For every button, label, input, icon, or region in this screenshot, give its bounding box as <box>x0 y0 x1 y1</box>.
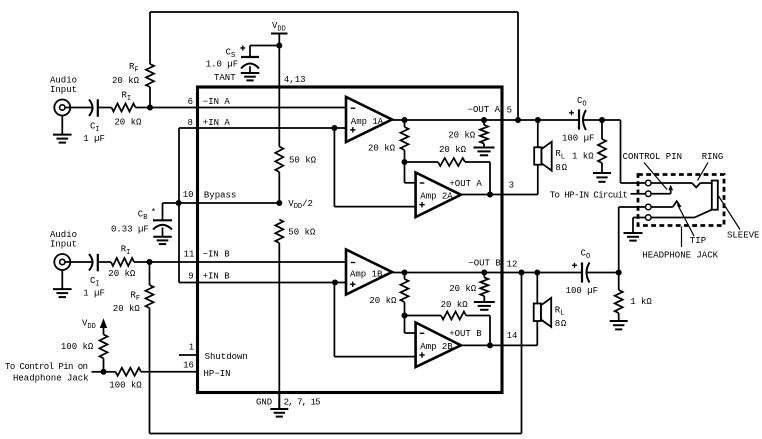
wire RI-B to node <box>134 261 150 263</box>
svg-text:20 kΩ: 20 kΩ <box>114 118 142 128</box>
callout line (headphone jack) <box>681 227 683 248</box>
svg-text:20 kΩ: 20 kΩ <box>449 284 477 294</box>
wire pin 3 to speaker A <box>502 194 538 196</box>
value 20 kOhm (RI A) <box>114 118 142 128</box>
wire tip contact <box>651 201 680 207</box>
wire CO-A to control pin <box>621 120 646 183</box>
svg-text:100 µF: 100 µF <box>562 133 594 143</box>
capacitor CI (A) 1 uF <box>89 99 98 117</box>
label VDD (pull-up) <box>82 319 96 331</box>
wire input B to CI <box>65 261 93 263</box>
node speaker-A junction <box>535 117 541 123</box>
label RING <box>702 152 724 162</box>
wire divider mid <box>278 172 280 203</box>
value 20 kOhm (B cross) <box>441 300 469 310</box>
svg-text:20 kΩ: 20 kΩ <box>448 131 476 141</box>
plus mark (CO A) <box>569 110 574 115</box>
wire +IN B from bypass riser <box>179 282 346 284</box>
wire -OUT A to CO <box>502 119 579 121</box>
minus mark (Amp 1B) <box>351 262 356 264</box>
node -OUT B / 20k junction <box>481 270 487 276</box>
wire input A to CI <box>65 107 93 109</box>
wire Amp1B output to -OUT B <box>392 272 502 274</box>
svg-text:12: 12 <box>507 259 518 269</box>
resistor 100 kOhm (pull-up) <box>100 335 108 372</box>
capacitor CO (B) 100 uF <box>582 262 590 282</box>
value 100 kOhm (pull-up) <box>61 342 94 352</box>
label RF (A) <box>129 62 139 74</box>
value 1 kOhm (B) <box>630 297 652 307</box>
svg-text:100 kΩ: 100 kΩ <box>61 342 94 352</box>
wire pin 14 to speaker B <box>502 344 537 346</box>
wire CS to ground <box>249 66 251 73</box>
plus mark (CO B) <box>572 263 577 268</box>
capacitor CI (B) 1 uF <box>89 254 98 271</box>
label CI (A) <box>90 122 100 134</box>
svg-text:RING: RING <box>702 152 724 162</box>
ground (1k A) <box>593 173 611 182</box>
wire CI-A to RI-A <box>98 107 112 109</box>
pin 12 <box>507 259 518 269</box>
headphone jack dashed box <box>638 175 724 226</box>
label Bypass <box>204 190 236 200</box>
value 1 uF (CI B) <box>83 289 105 299</box>
wire Amp1A output to -OUT A <box>392 119 502 121</box>
pin 10 <box>183 190 194 200</box>
ground (input A) <box>53 135 72 143</box>
capacitor CB 0.33 uF <box>153 203 172 230</box>
svg-text:Input: Input <box>50 239 77 249</box>
node CO-B output junction <box>616 270 622 276</box>
plus mark (Amp 1B) <box>350 282 355 287</box>
node speaker-B junction <box>534 270 540 276</box>
wire Amp2A minus stub <box>405 162 416 183</box>
node -IN B junction <box>147 259 153 265</box>
value 20 kOhm (A fb upper) <box>368 144 396 154</box>
pin 5 <box>507 105 512 115</box>
wire jack ground branch <box>633 218 645 234</box>
wire Amp2B plus input <box>334 283 415 357</box>
op-amp Amp 2A <box>416 173 461 218</box>
pin 8 <box>187 118 192 128</box>
svg-text:HP−IN: HP−IN <box>204 369 231 379</box>
wire control contact with arrow <box>651 185 673 194</box>
svg-text:50 kΩ: 50 kΩ <box>289 156 317 166</box>
svg-text:+OUT B: +OUT B <box>449 329 482 339</box>
svg-text:1 µF: 1 µF <box>83 289 105 299</box>
node -OUT A / 20k junction <box>481 117 487 123</box>
wire RF-A top segment <box>149 12 151 64</box>
label +OUT B <box>449 329 482 339</box>
svg-text:1 kΩ: 1 kΩ <box>630 297 652 307</box>
value 20 kOhm (A gnd) <box>448 131 476 141</box>
resistor 50 kOhm (lower divider) <box>275 220 283 244</box>
node VDD/2 <box>276 200 282 206</box>
pin 3 <box>509 180 514 190</box>
wire +OUT B to pin 14 <box>461 344 502 346</box>
label CO (B) <box>581 249 591 261</box>
label GND <box>256 398 272 408</box>
svg-text:SLEEVE: SLEEVE <box>727 231 759 241</box>
jack contact circle 1 (ring) <box>646 180 652 186</box>
label VDD (top) <box>272 21 286 33</box>
resistor RF (B) 20 kOhm <box>146 285 154 308</box>
label CS <box>226 48 236 60</box>
ground (1k B) <box>610 321 628 329</box>
label Amp 1A <box>351 117 384 127</box>
svg-text:6: 6 <box>188 97 193 107</box>
connector Audio Input B <box>54 254 70 270</box>
ground (jack) <box>624 233 643 241</box>
node bypass junction <box>176 200 182 206</box>
wire ring contact <box>651 183 711 188</box>
svg-text:2, 7, 15: 2, 7, 15 <box>284 398 321 408</box>
ground (A 20k) <box>474 148 495 156</box>
wire control label to node <box>92 371 104 373</box>
label RF (B) <box>131 291 141 303</box>
label HEADPHONE JACK <box>642 250 718 260</box>
node VDD junction <box>276 43 282 49</box>
wire CO-A to node <box>583 119 620 121</box>
wire RF-A feedback loop (top) <box>150 12 518 120</box>
wire B cross-couple down <box>489 316 491 346</box>
value 50 kOhm (lower) <box>288 228 316 238</box>
resistor 20 kOhm (B to ground) <box>480 273 488 303</box>
label -IN A <box>203 97 231 107</box>
resistor 1 kOhm (A) <box>598 120 606 173</box>
svg-text:Amp 2A: Amp 2A <box>420 192 453 202</box>
op-amp Amp 1B <box>346 250 392 295</box>
svg-text:8Ω: 8Ω <box>555 163 567 173</box>
svg-text:9: 9 <box>188 272 193 282</box>
wire Amp2A plus input <box>334 128 415 207</box>
resistor 100 kOhm (HP-IN series) <box>104 368 198 376</box>
label Shutdown <box>205 352 248 362</box>
wire divider to GND pins <box>278 243 280 393</box>
plus mark (Amp 2B) <box>419 352 424 357</box>
label VDD/2 <box>288 199 313 211</box>
resistor RI (A) 20 kOhm <box>112 104 136 112</box>
node HP-IN junction <box>101 369 107 375</box>
wire RF-A bottom segment <box>149 87 151 108</box>
resistor 50 kOhm (upper divider) <box>275 147 283 173</box>
wire RF-B feedback loop (bottom) <box>150 273 522 434</box>
value 20 kOhm (RI B) <box>108 269 136 279</box>
connector Audio Input A <box>54 100 70 116</box>
callout line (tip) <box>678 205 695 237</box>
wire A cross-couple down <box>489 162 491 195</box>
node A feedback junction <box>402 159 408 165</box>
node -IN A junction <box>147 105 153 111</box>
value 1 kOhm (A) <box>572 152 594 162</box>
node loop-A junction <box>515 117 521 123</box>
svg-text:To Control Pin on: To Control Pin on <box>5 362 88 372</box>
svg-text:1: 1 <box>189 343 194 353</box>
ground (CS) <box>241 73 260 80</box>
node +OUT B junction <box>487 342 493 348</box>
wire Amp2B minus stub <box>405 316 416 334</box>
minus mark (Amp 2A) <box>420 182 425 184</box>
svg-text:14: 14 <box>507 331 518 341</box>
value 20 kOhm (RF A) <box>112 76 140 86</box>
svg-text:50 kΩ: 50 kΩ <box>288 228 316 238</box>
svg-text:+IN A: +IN A <box>203 118 231 128</box>
wire VDD bus into IC (pins 4,13) <box>278 46 280 147</box>
label +IN A <box>203 118 231 128</box>
wire Bypass pin 10 <box>163 202 280 204</box>
ground (CB) <box>153 237 172 244</box>
svg-text:−IN A: −IN A <box>203 97 231 107</box>
svg-text:20 kΩ: 20 kΩ <box>113 304 141 314</box>
pin 4,13 label <box>284 75 306 85</box>
wire bypass riser (left of IC) <box>178 128 180 283</box>
value 1.0 uF (CS) <box>206 60 238 70</box>
label RL (B) <box>555 305 565 317</box>
svg-text:Shutdown: Shutdown <box>205 352 248 362</box>
wire sleeve contact <box>651 210 711 218</box>
capacitor CO (A) 100 uF <box>579 109 586 130</box>
svg-text:Headphone Jack: Headphone Jack <box>13 374 89 384</box>
value 50 kOhm (upper) <box>289 156 317 166</box>
value 20 kOhm (B gnd) <box>449 284 477 294</box>
resistor 20 kOhm (A to ground) <box>480 120 488 148</box>
wire RI-A to node <box>136 107 151 109</box>
label CONTROL PIN <box>623 152 682 162</box>
svg-text:20 kΩ: 20 kΩ <box>441 300 469 310</box>
resistor 20 kOhm (A cross-couple) <box>405 158 491 166</box>
wire HP-IN stub <box>631 193 646 195</box>
label TANT (CS) <box>214 73 236 83</box>
resistor 20 kOhm (B feedback upper) <box>401 273 409 316</box>
label RI (A) <box>122 91 132 103</box>
ground (input B) <box>53 289 72 297</box>
value 8 Ohm (RL B) <box>555 319 567 329</box>
svg-text:11: 11 <box>184 250 195 260</box>
svg-text:1 µF: 1 µF <box>83 134 105 144</box>
svg-text:20 kΩ: 20 kΩ <box>368 144 396 154</box>
svg-text:5: 5 <box>507 105 512 115</box>
pin 9 <box>188 272 193 282</box>
svg-text:20 kΩ: 20 kΩ <box>108 269 136 279</box>
wire input B to ground stem <box>61 270 63 289</box>
svg-text:+IN B: +IN B <box>203 272 231 282</box>
svg-text:8Ω: 8Ω <box>555 319 567 329</box>
minus mark (Amp 1A) <box>351 107 356 109</box>
wire CI-B to RI-B <box>98 261 111 263</box>
svg-text:To HP-IN Circuit: To HP-IN Circuit <box>550 191 628 201</box>
svg-text:−OUT A: −OUT A <box>468 105 501 115</box>
label To Control Pin on Headphone Jack <box>5 362 89 384</box>
svg-text:10: 10 <box>183 190 194 200</box>
jack contact circle 2 (control) <box>646 191 652 197</box>
value 8 Ohm (RL A) <box>555 163 567 173</box>
wire CB to ground <box>162 228 164 237</box>
callout line (sleeve) <box>719 196 741 230</box>
label CO (A) <box>577 96 587 108</box>
label -OUT A <box>468 105 501 115</box>
svg-text:Amp 1A: Amp 1A <box>351 117 384 127</box>
svg-text:100 kΩ: 100 kΩ <box>109 380 142 390</box>
power VDD (shutdown pull-up) <box>100 318 107 334</box>
svg-text:20 kΩ: 20 kΩ <box>369 296 397 306</box>
wire GND stub <box>278 393 280 410</box>
wire +IN A from bypass riser <box>179 127 346 129</box>
value 100 uF (CO A) <box>562 133 594 143</box>
label RL (A) <box>555 149 565 161</box>
wire -IN B inside IC <box>198 261 347 263</box>
svg-text:Amp 1B: Amp 1B <box>350 269 383 279</box>
resistor RI (B) 20 kOhm <box>111 258 134 266</box>
label CI (B) <box>90 276 100 288</box>
value 1 uF (CI A) <box>83 134 105 144</box>
speaker RL (A) 8 Ohm <box>534 120 552 195</box>
svg-text:1 kΩ: 1 kΩ <box>572 152 594 162</box>
svg-text:Bypass: Bypass <box>204 190 236 200</box>
svg-text:1.0 µF: 1.0 µF <box>206 60 238 70</box>
value 20 kOhm (RF B) <box>113 304 141 314</box>
label Amp 2B <box>420 342 453 352</box>
value 100 uF (CO B) <box>566 286 598 296</box>
svg-text:3: 3 <box>509 180 514 190</box>
svg-text:Input: Input <box>50 85 77 95</box>
svg-text:TIP: TIP <box>690 236 706 246</box>
label -OUT B <box>468 258 501 268</box>
speaker RL (B) 8 Ohm <box>534 273 552 346</box>
wire RF-B top segment <box>149 262 151 285</box>
label Amp 2A <box>420 192 453 202</box>
svg-text:100 µF: 100 µF <box>566 286 598 296</box>
wire +OUT A to pin 3 <box>461 194 502 196</box>
label +OUT A <box>449 179 482 189</box>
op-amp Amp 1A <box>346 97 392 142</box>
wire -IN B to pin 11 <box>150 261 198 263</box>
op-amp IC package U1 (boomer) <box>198 87 503 393</box>
op-amp Amp 2B <box>416 323 461 368</box>
label Amp 1B <box>350 269 383 279</box>
value 20 kOhm (B fb upper) <box>369 296 397 306</box>
svg-text:Amp 2B: Amp 2B <box>420 342 453 352</box>
jack contact circle 4 (sleeve) <box>646 215 652 221</box>
ground (B 20k) <box>474 302 495 310</box>
pin 14 <box>507 331 518 341</box>
svg-text:*: * <box>151 208 156 218</box>
wire pin 1 stub (Shutdown) <box>179 354 198 356</box>
label SLEEVE <box>727 231 759 241</box>
power VDD (top) <box>271 34 288 46</box>
label HP-IN <box>204 369 231 379</box>
wire -IN A inside IC <box>198 107 347 109</box>
sleeve bar <box>712 181 718 210</box>
node +OUT A junction <box>487 192 493 198</box>
resistor 20 kOhm (A feedback upper) <box>401 120 409 162</box>
plus mark (Amp 2A) <box>419 202 424 207</box>
wire -IN A to pin 6 <box>150 107 198 109</box>
callout line (ring) <box>698 163 709 181</box>
capacitor CS 1.0 uF TANT <box>241 57 259 69</box>
pin 16 <box>183 361 194 371</box>
svg-text:20 kΩ: 20 kΩ <box>439 145 467 155</box>
plus mark (Amp 1A) <box>350 127 355 132</box>
value 0.33 uF (CB) <box>111 225 149 235</box>
node CO-A output junction <box>599 117 605 123</box>
value 100 kOhm (series) <box>109 380 142 390</box>
svg-text:HEADPHONE JACK: HEADPHONE JACK <box>642 250 718 260</box>
callout line (control pin) <box>644 163 667 190</box>
svg-text:20 kΩ: 20 kΩ <box>112 76 140 86</box>
resistor RF (A) 20 kOhm <box>146 64 154 87</box>
svg-text:0.33 µF: 0.33 µF <box>111 225 149 235</box>
node B feedback junction <box>402 313 408 319</box>
node +IN B junction <box>332 280 338 286</box>
svg-text:−IN B: −IN B <box>203 250 231 260</box>
resistor 20 kOhm (B cross-couple) <box>405 312 491 320</box>
wire CO-B to node <box>587 272 619 274</box>
node loop-B junction <box>519 270 525 276</box>
node Amp1B output junction <box>402 270 408 276</box>
label +IN B <box>203 272 231 282</box>
value 20 kOhm (A cross) <box>439 145 467 155</box>
resistor 1 kOhm (B) <box>615 273 623 321</box>
svg-text:TANT: TANT <box>214 73 236 83</box>
plus mark (CS) <box>240 46 245 51</box>
wire VDD to CS <box>250 46 279 58</box>
label Audio Input (B) <box>50 230 77 249</box>
pin 11 <box>184 250 195 260</box>
label RI (B) <box>121 245 131 257</box>
svg-text:CONTROL PIN: CONTROL PIN <box>623 152 682 162</box>
label CB <box>138 208 156 222</box>
label -IN B <box>203 250 231 260</box>
svg-text:−OUT B: −OUT B <box>468 258 501 268</box>
label To HP-IN Circuit <box>550 191 628 201</box>
pin 1 <box>189 343 194 353</box>
label Audio Input (A) <box>50 76 77 95</box>
svg-text:GND: GND <box>256 398 272 408</box>
svg-text:+OUT A: +OUT A <box>449 179 482 189</box>
node Amp1A output junction <box>402 117 408 123</box>
jack contact circle 3 (tip) <box>646 204 652 210</box>
node +IN A junction <box>331 125 337 131</box>
svg-text:8: 8 <box>187 118 192 128</box>
wire input A to ground stem <box>61 116 63 135</box>
wire tip to CO-B node <box>619 207 646 273</box>
pin 2,7,15 label <box>284 398 321 408</box>
svg-text:4,13: 4,13 <box>284 75 306 85</box>
wire -OUT B to CO <box>502 272 582 274</box>
minus mark (Amp 2B) <box>420 332 425 334</box>
label TIP <box>690 236 706 246</box>
pin 6 <box>188 97 193 107</box>
ground (IC GND) <box>270 409 288 417</box>
svg-text:16: 16 <box>183 361 194 371</box>
